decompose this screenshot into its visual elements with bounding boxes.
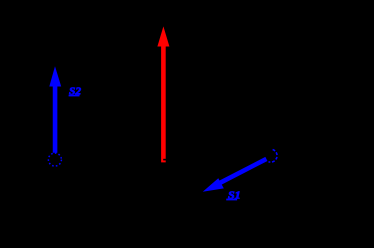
black notch at red base (overlapping dark circle dot) <box>163 159 166 161</box>
vector S1 arrowhead <box>203 178 224 192</box>
dotted arc at S1 base <box>269 150 278 163</box>
dotted circle at S2 base <box>48 153 61 166</box>
vector S1 shaft <box>220 159 267 183</box>
resultant red vector shaft <box>161 46 166 163</box>
resultant red vector arrowhead <box>157 26 169 46</box>
vector S2 arrowhead <box>49 66 61 86</box>
vector S2 shaft <box>53 86 58 153</box>
